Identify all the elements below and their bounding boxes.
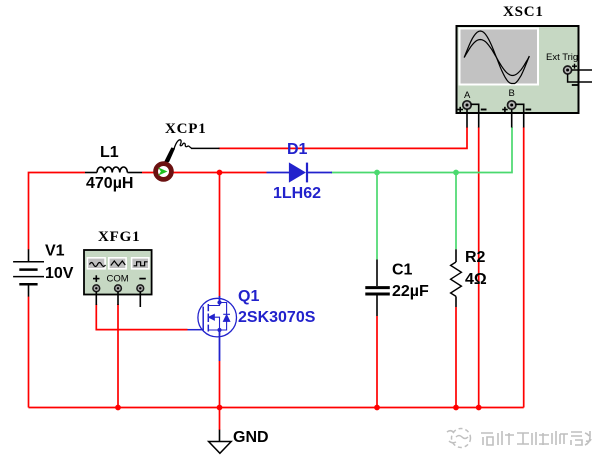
svg-text:XSC1: XSC1 bbox=[503, 4, 544, 20]
wire: + pin black stub bbox=[95, 292, 97, 306]
wire: node to Q1 drain bbox=[219, 173, 221, 297]
svg-text:COM: COM bbox=[107, 274, 129, 285]
resistor R2 bbox=[451, 249, 462, 307]
svg-text:Q1: Q1 bbox=[238, 288, 259, 305]
wire: scope B- down to rail right end bbox=[523, 127, 525, 408]
svg-text:22µF: 22µF bbox=[392, 283, 429, 300]
wire: XFG1 COM to rail bbox=[117, 304, 119, 408]
watermark text bbox=[481, 431, 591, 445]
wire: rail to GND symbol bbox=[219, 408, 221, 431]
capacitor C1 bbox=[365, 260, 390, 317]
wire: ext trig - stub bbox=[568, 74, 592, 82]
wire: COM pin black stub bbox=[117, 292, 119, 306]
svg-text:C1: C1 bbox=[392, 262, 413, 279]
wire: bottom ground rail bbox=[29, 407, 524, 409]
svg-text:GND: GND bbox=[233, 429, 269, 446]
svg-text:L1: L1 bbox=[100, 144, 119, 161]
wire: source lead bbox=[219, 330, 221, 361]
wire: drain lead bbox=[219, 296, 221, 303]
node: junction C1 on green net bbox=[374, 170, 380, 176]
current probe XCP1 bbox=[156, 140, 220, 180]
inductor L1 bbox=[85, 167, 142, 172]
wire: R2 bottom to rail bbox=[455, 307, 457, 408]
pin COM of XFG1 bbox=[115, 285, 122, 292]
transistor Q1 bbox=[188, 296, 237, 361]
oscilloscope XSC1 bbox=[457, 26, 593, 128]
svg-text:D1: D1 bbox=[287, 141, 308, 158]
wire: A+ pin stub bbox=[466, 109, 468, 128]
wire: XCP1 output to scope A+ bbox=[219, 127, 468, 148]
node: junction GND on rail bbox=[217, 405, 223, 411]
wire: XFG1 + output to Q1 gate bbox=[96, 304, 187, 330]
pin A bbox=[463, 101, 471, 109]
wire: left loop from L1 left down to battery top bbox=[29, 173, 86, 250]
svg-text:XCP1: XCP1 bbox=[165, 121, 207, 137]
wire: B- pin stub bbox=[516, 104, 524, 127]
svg-text:2SK3070S: 2SK3070S bbox=[238, 309, 316, 326]
ground bbox=[209, 430, 232, 454]
wire: main top net L1 to D1 anode bbox=[142, 172, 267, 174]
wire: green drop to C1 top bbox=[376, 173, 378, 260]
node: junction R2 on green net bbox=[453, 170, 459, 176]
wire: - pin unconnected stub bbox=[139, 292, 141, 308]
wire: battery bottom to ground rail bbox=[28, 297, 30, 408]
svg-text:B: B bbox=[509, 88, 515, 99]
svg-text:10V: 10V bbox=[45, 265, 74, 282]
svg-text:1LH62: 1LH62 bbox=[273, 185, 321, 202]
svg-text:XFG1: XFG1 bbox=[98, 229, 140, 245]
node: junction C1 on rail bbox=[374, 405, 380, 411]
wire: A- pin stub bbox=[471, 104, 479, 127]
function generator XFG1 bbox=[84, 250, 152, 307]
wire: C1 bottom to rail bbox=[376, 316, 378, 408]
svg-text:A: A bbox=[464, 90, 471, 101]
svg-text:4Ω: 4Ω bbox=[465, 271, 487, 288]
watermark logo bbox=[447, 429, 471, 448]
diode D1 bbox=[267, 162, 333, 182]
wire: green drop to R2 top bbox=[455, 173, 457, 250]
pin Ext Trig bbox=[564, 66, 572, 74]
wire: green output net D1 cathode to scope B+ bbox=[331, 127, 512, 173]
wire: Q1 source to rail (lower part) bbox=[219, 361, 221, 408]
wire: scope A- down to rail bbox=[478, 127, 480, 408]
svg-text:470µH: 470µH bbox=[86, 175, 133, 192]
svg-text:Ext Trig: Ext Trig bbox=[546, 52, 578, 63]
node: junction COM on rail bbox=[115, 405, 121, 411]
svg-text:V1: V1 bbox=[45, 243, 65, 260]
pin B bbox=[508, 101, 516, 109]
battery V1 bbox=[13, 249, 44, 296]
svg-text:R2: R2 bbox=[465, 249, 486, 266]
node: junction R2 on rail bbox=[453, 405, 459, 411]
wire: ext trig + stub bbox=[572, 69, 593, 71]
wire: B+ pin stub bbox=[511, 109, 513, 128]
node: junction at drain column on top net bbox=[217, 170, 223, 176]
pin + of XFG1 bbox=[93, 285, 100, 292]
node: junction A- on rail bbox=[476, 405, 482, 411]
pin - of XFG1 bbox=[137, 285, 144, 292]
